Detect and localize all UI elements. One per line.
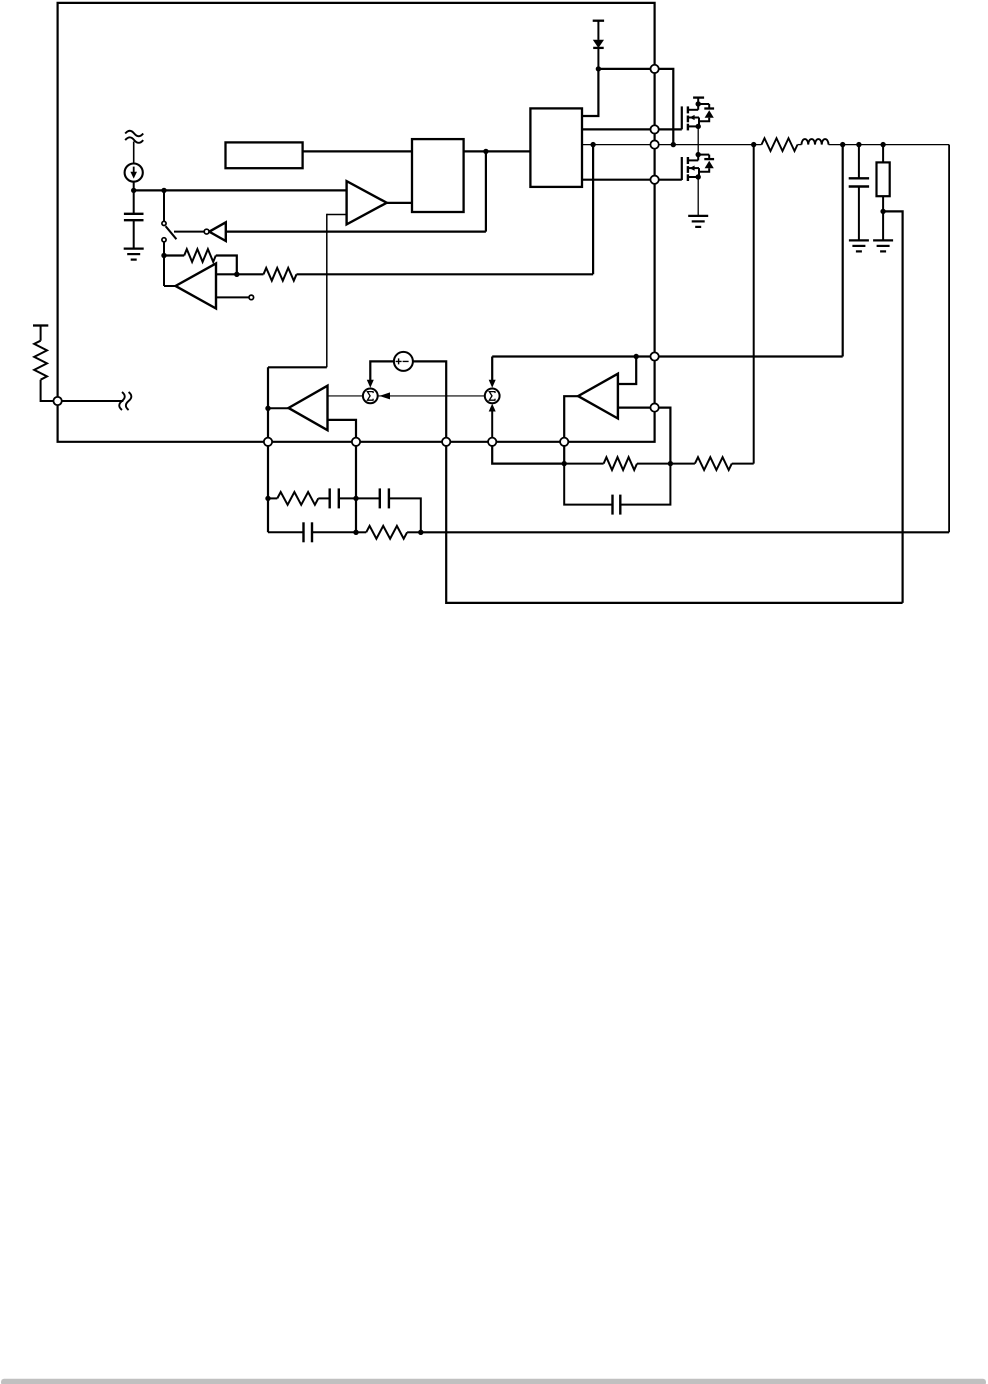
wire driver SW sense — [582, 144, 655, 146]
node comp1 a — [265, 496, 270, 501]
wire comp1 left vertical — [267, 442, 269, 533]
switch S1 contact a — [162, 221, 166, 225]
wire bootstrap to pin — [598, 68, 654, 70]
node bootstrap diode — [596, 66, 601, 71]
resistor R5 — [268, 497, 277, 499]
pin P4 — [488, 438, 496, 446]
wire feedback loop low — [446, 442, 902, 603]
resistor R2 sense — [264, 268, 297, 281]
capacitor C3 — [329, 488, 331, 508]
wire contact b to output node — [163, 242, 165, 286]
wire Q2 source to ground — [697, 177, 699, 216]
arrow into SUM2 bottom — [489, 404, 496, 412]
wire A2 tip — [268, 407, 289, 409]
gate driver U5 — [530, 108, 582, 186]
wire ref to feedback vertical — [413, 361, 446, 441]
capacitor C6 — [564, 464, 612, 505]
wire PWM feedback vertical — [485, 151, 487, 231]
supply break squiggle above current source — [125, 131, 143, 137]
node Q1 source-diode — [696, 124, 701, 129]
wire A1 input to sense resistor — [237, 273, 264, 275]
wire R3 to L1 — [798, 144, 802, 146]
wire node to switch contact — [163, 190, 165, 221]
wire A2 lower input — [328, 420, 357, 442]
pin COMP2 — [650, 403, 658, 411]
wire A1 upper input — [216, 273, 237, 275]
wire A2 node vertical — [267, 367, 269, 442]
node comp2 b — [668, 461, 673, 466]
pin P1 — [264, 438, 272, 446]
wire divider tap — [883, 211, 903, 603]
node comp1 c — [353, 530, 358, 535]
wire comp input horizontal — [268, 366, 327, 368]
wire pin GL to Q2 gate — [658, 179, 682, 181]
capacitor C1 (timing) — [124, 213, 144, 215]
wire A3 output — [564, 396, 578, 442]
wire output right loop — [948, 145, 950, 533]
ramp bus wire — [134, 189, 347, 191]
node A2 tip — [265, 406, 270, 411]
ground for C1 — [124, 248, 144, 250]
op-amp A2 — [289, 386, 328, 431]
wire SW sense vertical — [592, 145, 594, 275]
pin P2 — [352, 438, 360, 446]
node SW-R — [751, 142, 756, 147]
wire driver bootstrap — [582, 69, 598, 116]
wire inverter input — [226, 231, 486, 233]
pin P3 — [442, 438, 450, 446]
pin GL — [650, 176, 658, 184]
ground for C2 — [849, 239, 869, 241]
inverter INV1 — [209, 222, 226, 241]
wire driver gate low — [582, 179, 655, 181]
node at ramp — [131, 188, 136, 193]
wire U4 output — [464, 150, 531, 152]
wire comp1 mid vertical — [355, 442, 357, 533]
wire A1 lower input — [216, 296, 249, 298]
node comp2 a — [562, 461, 567, 466]
arrow into SUM1 right — [379, 392, 390, 399]
wire amp tip — [164, 285, 176, 287]
node divider mid — [880, 209, 885, 214]
pin P5 — [560, 438, 568, 446]
ground for Q2 — [688, 215, 708, 217]
node divider top — [880, 142, 885, 147]
switch S1 arm — [166, 226, 177, 239]
pin SW — [650, 140, 658, 148]
wire sense horizontal external — [655, 355, 843, 357]
wire switch to inverter — [174, 231, 204, 233]
node amp output — [161, 253, 166, 258]
wire pin GH to Q1 gate — [658, 128, 682, 130]
resistor R3 (DCR) — [762, 138, 798, 151]
wire pin BOOT external — [658, 69, 673, 145]
wire U3 to PWM — [303, 150, 412, 152]
switch S1 contact b — [162, 238, 166, 242]
wire Q1 source to Q2 drain — [697, 126, 699, 154]
resistor R6 — [356, 531, 366, 533]
inductor L1 — [802, 139, 829, 145]
node Q2 source-diode — [696, 174, 701, 179]
node sense to A3 — [634, 354, 639, 359]
arrow into SUM1 top — [367, 380, 374, 388]
wire SUM2 bottom arrow — [491, 411, 493, 442]
wire R2 to SW sense line — [297, 273, 594, 275]
wire U2 lower input stub — [327, 214, 347, 216]
wire comp input vertical — [326, 214, 328, 367]
wire SUM1 to A2 input — [328, 395, 363, 397]
wire SUM2 to SUM1 — [378, 395, 484, 397]
current source I1 — [125, 164, 143, 182]
PWM latch U4 — [412, 139, 464, 212]
wire squiggle to current source — [133, 142, 135, 164]
node Q2 drain-diode — [696, 152, 701, 157]
comparator U2 — [347, 181, 387, 224]
resistor R7 — [564, 463, 603, 465]
wire A3 lower input — [618, 407, 655, 409]
wire sense to SUM2 arrow — [491, 357, 493, 385]
node comp1 b — [353, 496, 358, 501]
terminal A1 lower input — [249, 295, 254, 300]
pin RT — [53, 397, 61, 405]
node ramp to switch — [161, 188, 166, 193]
wire A3 upper input — [618, 357, 636, 385]
wire comp2 left drop — [492, 442, 564, 464]
pin BOOT — [650, 65, 658, 73]
transistor Q1 (high side) — [681, 106, 683, 129]
node PWM output — [483, 149, 488, 154]
wire sense inside — [492, 355, 654, 357]
wire pin COMP2 external — [658, 408, 670, 464]
wire sense vertical — [842, 145, 844, 357]
diode D1 bootstrap — [593, 20, 604, 22]
wire pin RT external — [61, 400, 123, 402]
node boot external on SW line — [671, 142, 676, 147]
node R1 to input — [234, 272, 239, 277]
capacitor Cout leads — [858, 145, 860, 179]
wire R8 to SW node — [753, 145, 755, 464]
wire U2 output — [387, 202, 412, 204]
oscillator block U3 — [226, 142, 303, 168]
wire pin P5 drop — [563, 442, 565, 464]
IC block outline U1 — [58, 3, 655, 442]
op-amp A1 — [176, 263, 217, 308]
resistor R9 external — [33, 324, 48, 326]
summer SUM1 — [363, 389, 378, 404]
arrow into SUM2 top — [489, 380, 496, 388]
node Q1 drain-diode — [696, 101, 701, 106]
summer SUM2 — [485, 389, 500, 404]
pin GH — [650, 125, 658, 133]
wire driver gate high — [582, 128, 655, 130]
capacitor C4 — [356, 497, 380, 499]
wire comp1 to output loop — [421, 531, 949, 533]
reference source V1 — [394, 352, 413, 371]
capacitor C5 — [268, 531, 304, 533]
node Vout sense — [840, 142, 845, 147]
resistor R4 divider — [882, 145, 884, 163]
footer bar — [1, 1379, 986, 1384]
resistor R1 feedback — [164, 254, 184, 256]
wire L1 to output — [829, 144, 950, 146]
break squiggle at RT — [119, 392, 125, 410]
resistor R8 — [670, 463, 695, 465]
wire pin SW external — [658, 144, 761, 146]
node Cout — [856, 142, 861, 147]
wire ref to SUM1 — [370, 361, 393, 384]
node comp1 d — [418, 530, 423, 535]
capacitor C2 output — [849, 177, 869, 179]
wire current source to node — [133, 182, 135, 214]
op-amp A3 — [578, 374, 618, 419]
node SW inside — [590, 142, 595, 147]
inverter bubble — [204, 229, 209, 234]
transistor Q2 (low side) — [681, 157, 683, 180]
ground for R4 — [873, 239, 893, 241]
pin VSENSE — [650, 352, 658, 360]
